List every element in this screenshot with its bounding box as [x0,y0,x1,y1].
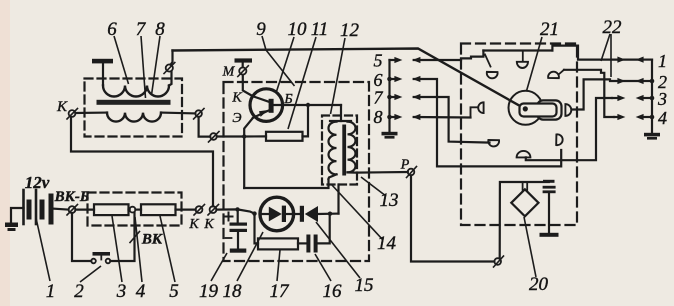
node between R4 R5 (small circle) [130,207,136,213]
svg-text:6: 6 [107,19,117,40]
row5 wire to top rail [414,51,484,61]
node dot cap19 [235,207,239,211]
svg-text:7: 7 [136,19,147,40]
wire cup6 to row3 [526,98,612,160]
contact cup 7 [551,133,565,147]
svg-text:К: К [56,99,68,115]
wire diode15 to node [318,213,339,216]
wire HV up to top line [171,51,173,65]
diode 18 cathode bar [282,206,286,222]
leader 12 [331,38,346,114]
transistor collector line [253,96,269,102]
transformer primary winding (left) [329,122,337,175]
leader 19 [211,253,227,281]
transformer primary bottom hook [329,174,337,179]
terminal B (circle with slash) [210,133,217,140]
wire terminal up to suppressor 20 [500,182,549,258]
svg-text:К: К [231,91,242,106]
ground (left plug bus) [382,132,398,139]
label minus [226,237,232,239]
wire VK-B down to switch [72,213,91,261]
transformer top bar [330,120,351,122]
leader 15 [316,222,360,278]
wire emitter node to transformer primary bottom [244,179,328,188]
leader 13 [361,177,386,196]
svg-text:12: 12 [340,20,360,41]
transistor base bar [269,99,274,113]
svg-text:4: 4 [658,108,667,128]
wire R5 to K terminal [176,209,196,211]
wire diode18 to diode15 [293,213,300,215]
wire node to R5 [135,209,141,211]
svg-text:11: 11 [311,19,329,40]
coil HV tap stub [169,72,172,86]
svg-text:21: 21 [540,19,559,40]
transistor VT (circle) [250,89,283,122]
svg-text:К: К [188,217,199,232]
wire P down and right [411,175,494,261]
resistor R4 (variator) [94,204,129,215]
contact cup 3 stub [559,70,565,75]
svg-text:5: 5 [169,281,179,302]
leader 7 [141,36,146,98]
wire battery plus to VK-B terminal [51,209,69,210]
dashed box resistors 3 [88,193,182,226]
svg-text:3: 3 [116,281,127,302]
resistor R17 [258,238,298,249]
wire M to transistor collector [243,75,253,96]
wire K to coil primary [75,111,107,114]
svg-text:14: 14 [377,233,397,254]
ground (right plug bus) [644,133,660,140]
capacitor stem to ground [548,193,550,233]
wire battery minus to ground [11,208,24,223]
wire emitter down to node [244,118,253,137]
leader 8 [152,36,161,95]
terminal A (circle with slash) [195,110,202,117]
ground (M terminal) [235,58,253,62]
svg-text:1: 1 [46,281,56,302]
wire switch to VK node [110,213,134,262]
rail exit to row1 [552,46,640,60]
svg-text:19: 19 [199,281,219,302]
svg-text:3: 3 [657,89,667,109]
wire R17 left up to node [255,214,259,244]
wire terminal A down to terminal B [199,117,211,137]
svg-text:8: 8 [374,107,383,127]
ground bar (distributor capacitor) [540,233,559,237]
transistor emitter arrow [259,110,268,117]
slash VK wire marker [130,232,140,243]
terminal K2 on feed wire [210,206,217,213]
svg-text:7: 7 [374,88,384,108]
capacitor C19 lower stem [237,232,239,249]
transformer core bar [342,125,346,176]
wire R4 to node [129,209,130,211]
suppressor 20 (diamond) [511,189,538,216]
leader lines and number labels [36,34,611,282]
contact cup 3 [547,69,561,83]
wire R11 right up to base line [303,105,309,136]
coil primary winding 7 [107,113,161,122]
svg-text:17: 17 [270,281,291,302]
suppressor 20 neck [523,183,528,190]
contact cup 6 [517,151,531,158]
svg-text:1: 1 [658,51,667,71]
ground (coil) [92,59,113,64]
svg-text:2: 2 [74,281,84,302]
left plug bus [388,60,390,132]
diode VD18 (in circle) [260,197,294,231]
terminal M (circle with slash) [239,67,246,74]
svg-text:16: 16 [323,281,343,302]
leader 9 [262,36,295,86]
capacitor top terminal bar (20 area) [543,180,555,183]
svg-text:ВК-Б: ВК-Б [54,189,90,205]
wire VK-B to resistor box [75,209,94,211]
transistor commutator dashed box 9 [224,82,370,261]
right plug bus [651,60,653,133]
wire base to transformer [274,104,341,106]
diode 18 triangle [269,207,282,222]
contact cup 4 stub [471,107,478,117]
contact cup 1 stub [485,55,491,67]
svg-text:13: 13 [380,190,399,211]
svg-text:8: 8 [155,19,165,40]
pulse transformer dashed box 12 [322,116,357,185]
svg-text:18: 18 [223,281,243,302]
leader 21 [527,37,543,91]
transformer core stem down [337,185,339,214]
leader 5 [160,216,175,282]
row7 wire to cup5 [414,97,490,143]
diode VD15 triangle [305,206,318,222]
leader 20 [524,217,536,277]
coil ground stem [102,63,104,85]
rotor arm head [537,100,562,119]
contact cup 8 (arm tip) [565,104,571,116]
rotor arm body [520,104,557,117]
resistor R5 [141,204,176,215]
leader 3 [112,216,122,282]
svg-text:5: 5 [374,51,383,71]
svg-text:ВК: ВК [141,232,163,248]
ground stem to M [242,63,244,68]
terminal VK-B (circle with slash) [69,206,76,213]
wire K down and to K terminal on feed line [71,117,213,206]
ground bar (C19) [230,249,247,253]
leader 2 [80,266,101,282]
transformer secondary winding (right) [348,122,356,173]
node dot emitter [242,134,246,138]
right feeds into arrows [612,97,619,99]
capacitor C19 plates [230,223,248,233]
node dot diode15 right [328,212,332,216]
wire node to resistor R11 [244,135,266,137]
leader 22 fork [601,34,610,61]
rotor center dot [523,106,528,111]
wire K2 to diode node [216,209,254,213]
transformer top stub [340,105,342,121]
leader 4 [135,217,142,282]
rotor circle [509,91,543,125]
svg-text:9: 9 [256,19,266,40]
svg-text:22: 22 [603,17,623,38]
capacitor C16 plates [306,235,317,253]
wire coil primary right to terminal A [161,111,195,114]
distributor dashed box 21 [461,44,577,226]
ignition coil dashed box [85,79,183,137]
wire terminal B to emitter node [217,135,244,137]
leader 10 [277,37,295,92]
coil core (dark band) [97,100,171,105]
leader 17 [277,250,280,281]
switch ST contact right [106,259,111,264]
top rail in distributor [483,49,552,51]
wire cup3 to row4 [564,70,614,117]
contact cup 2 drop [522,51,524,62]
switch ST movable bar [93,252,111,256]
right gap shafts [640,58,652,60]
spark gaps rows 1-4 arrows [617,57,654,121]
svg-text:15: 15 [355,275,374,296]
diode 18 anode lead [260,213,269,215]
wire node down to C16 [318,214,330,244]
leader 1 [36,218,50,281]
contact cup 2 [517,62,528,68]
wire arm tip to row2 [573,79,640,109]
leader 18 [237,232,263,281]
terminal HV of coil (circle with slash) [166,64,173,71]
svg-text:К: К [203,217,214,232]
wire top HV line to distributor [173,49,525,109]
capacitor plates (distributor) [543,186,556,193]
svg-text:Э: Э [232,111,241,126]
wire C16 to R17 [298,242,306,244]
label plus [225,213,233,221]
left gap shafts [390,59,397,61]
capacitor C19 stem [237,209,239,222]
battery GB 12v plates [24,190,52,224]
contact cup 5 [487,135,501,149]
wire emitter node down [243,137,245,189]
coil secondary winding 8 [103,86,169,97]
contact cup 1 [485,67,499,81]
switch ST contact left [91,259,96,264]
resistor R11 [266,132,303,141]
leader 14 [331,184,383,240]
svg-text:М: М [222,65,236,80]
leader 6 [114,36,129,84]
diode 18 cathode lead [286,213,293,215]
transformer secondary bottom hook to P [348,171,408,174]
leader 16 [315,254,331,281]
row8 wire [414,116,471,119]
ground (battery) [5,223,18,232]
node dot base [306,103,310,107]
spark gaps rows 5-8 arrows [387,57,420,120]
leader 11 [288,37,316,129]
switch ST stem [100,256,102,260]
svg-text:4: 4 [136,281,146,302]
transistor emitter line [253,110,269,118]
terminal P (circle with slash) [408,169,415,176]
svg-text:20: 20 [529,274,549,295]
terminal K1 on feed wire [196,206,203,213]
terminal (circle with slash) bottom right [494,258,501,265]
diode VD15 cathode bar [300,206,304,222]
svg-text:10: 10 [288,19,308,40]
svg-text:12v: 12v [25,173,50,192]
contact cup 4 [478,102,483,113]
node dot before diode [252,211,256,215]
row6 wire long to cup7 [414,79,562,166]
